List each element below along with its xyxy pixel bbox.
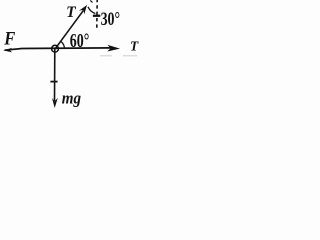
node right arrowhead T xyxy=(107,45,120,52)
node small mark top xyxy=(90,0,92,2)
node 60 degree arc xyxy=(61,41,65,49)
node left arrowhead F xyxy=(3,48,12,53)
node 30 degree arc xyxy=(88,7,95,14)
wire horizontal force line xyxy=(5,48,112,50)
node diagonal arrowhead xyxy=(79,5,87,14)
wire vertical mg xyxy=(54,49,56,101)
svg-text:30°: 30° xyxy=(101,10,121,30)
node faint smudge b xyxy=(123,55,137,56)
wire dashed vertical xyxy=(96,0,98,28)
svg-text:F: F xyxy=(3,29,15,50)
node faint smudge a xyxy=(100,55,112,56)
svg-text:T: T xyxy=(130,40,140,55)
wire diagonal T1 xyxy=(56,10,84,48)
svg-text:T: T xyxy=(66,4,76,21)
node tick on mg line xyxy=(50,81,57,83)
node center ring xyxy=(52,45,59,52)
svg-text:60°: 60° xyxy=(70,30,90,52)
node tick near 30 xyxy=(93,15,100,17)
svg-text:mg: mg xyxy=(62,88,82,107)
node mg arrowhead xyxy=(52,98,58,108)
